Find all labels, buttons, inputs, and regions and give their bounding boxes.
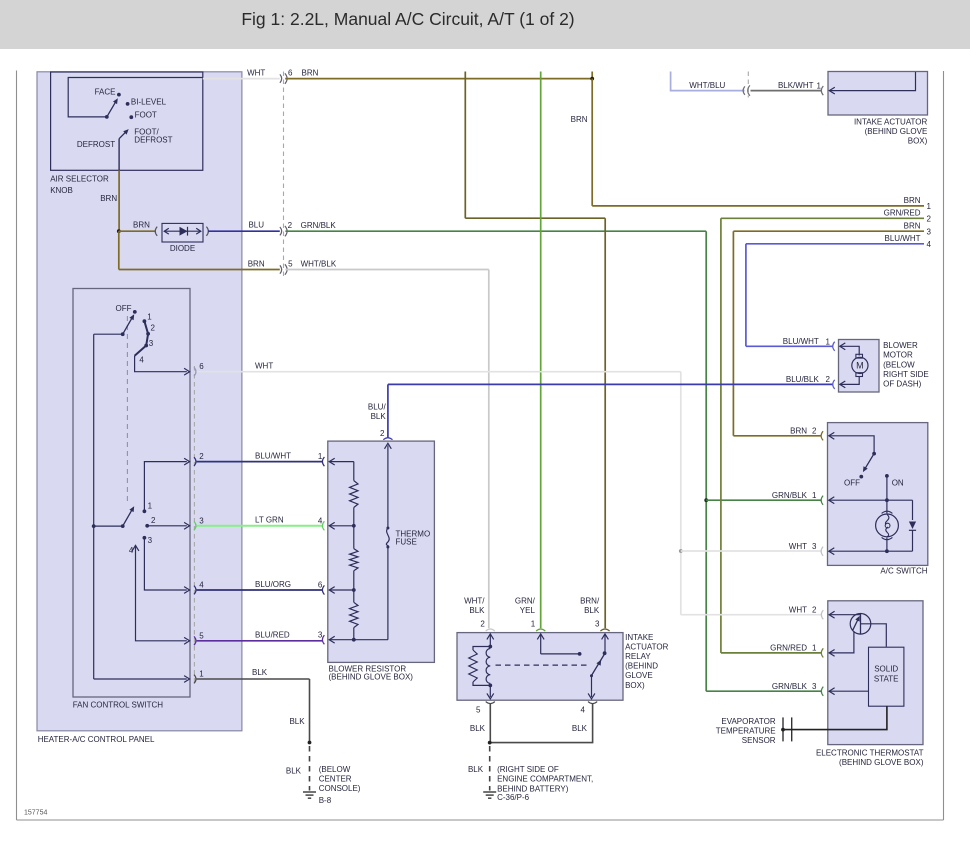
svg-text:3: 3: [812, 682, 817, 691]
svg-text:LT GRN: LT GRN: [255, 516, 284, 525]
svg-text:OF DASH): OF DASH): [883, 380, 922, 389]
svg-text:SOLID: SOLID: [874, 665, 898, 674]
svg-text:FACE: FACE: [95, 87, 116, 96]
svg-text:(BEHIND GLOVE BOX): (BEHIND GLOVE BOX): [839, 758, 924, 767]
svg-text:1: 1: [531, 619, 536, 628]
svg-text:A/C SWITCH: A/C SWITCH: [880, 566, 927, 575]
svg-text:3: 3: [927, 227, 932, 236]
svg-text:HEATER-A/C CONTROL PANEL: HEATER-A/C CONTROL PANEL: [38, 735, 155, 744]
svg-text:1: 1: [812, 644, 817, 653]
svg-text:1: 1: [927, 202, 932, 211]
svg-text:ACTUATOR: ACTUATOR: [625, 642, 668, 651]
svg-text:2: 2: [288, 221, 293, 230]
svg-text:BRN: BRN: [248, 259, 265, 268]
svg-text:(BELOW: (BELOW: [319, 765, 351, 774]
svg-text:4: 4: [199, 581, 204, 590]
svg-text:INTAKE: INTAKE: [625, 633, 653, 642]
svg-text:FOOT: FOOT: [135, 111, 157, 120]
svg-text:OFF: OFF: [116, 304, 132, 313]
svg-text:5: 5: [199, 631, 204, 640]
svg-text:BLK: BLK: [286, 767, 302, 776]
svg-text:BLU/ORG: BLU/ORG: [255, 580, 291, 589]
svg-text:157754: 157754: [24, 810, 47, 817]
svg-text:(BEHIND: (BEHIND: [625, 662, 658, 671]
svg-text:BLU: BLU: [248, 220, 264, 229]
svg-text:BRN: BRN: [133, 220, 150, 229]
svg-text:M: M: [856, 361, 864, 371]
svg-text:C-36/P-6: C-36/P-6: [497, 793, 530, 802]
svg-text:1: 1: [817, 82, 822, 91]
svg-text:CONSOLE): CONSOLE): [319, 784, 361, 793]
svg-text:FAN CONTROL SWITCH: FAN CONTROL SWITCH: [73, 701, 164, 710]
svg-text:4: 4: [927, 240, 932, 249]
svg-text:BRN: BRN: [302, 69, 319, 78]
svg-text:2: 2: [826, 375, 831, 384]
svg-text:BLK: BLK: [470, 724, 486, 733]
svg-text:4: 4: [139, 355, 144, 364]
svg-text:BRN: BRN: [790, 427, 807, 436]
svg-text:BLU/BLK: BLU/BLK: [786, 375, 820, 384]
svg-text:BRN/: BRN/: [580, 597, 600, 606]
svg-text:BLU/RED: BLU/RED: [255, 631, 290, 640]
svg-text:BLK: BLK: [289, 717, 305, 726]
svg-text:WHT: WHT: [789, 605, 807, 614]
svg-text:OFF: OFF: [844, 479, 860, 488]
svg-text:BRN: BRN: [571, 115, 588, 124]
svg-text:BLU/: BLU/: [368, 403, 387, 412]
svg-text:2: 2: [927, 215, 932, 224]
svg-text:BRN: BRN: [100, 194, 117, 203]
svg-text:GRN/BLK: GRN/BLK: [301, 221, 337, 230]
svg-text:ELECTRONIC THERMOSTAT: ELECTRONIC THERMOSTAT: [816, 749, 924, 758]
svg-text:GRN/RED: GRN/RED: [770, 644, 807, 653]
svg-text:CENTER: CENTER: [319, 775, 352, 784]
svg-text:SENSOR: SENSOR: [742, 736, 776, 745]
svg-text:1: 1: [199, 670, 204, 679]
svg-text:GLOVE: GLOVE: [625, 671, 653, 680]
svg-text:EVAPORATOR: EVAPORATOR: [721, 717, 775, 726]
svg-text:1: 1: [826, 337, 831, 346]
svg-text:BLK: BLK: [468, 765, 484, 774]
svg-text:BLK: BLK: [252, 668, 268, 677]
svg-text:BI-LEVEL: BI-LEVEL: [131, 98, 167, 107]
svg-text:YEL: YEL: [520, 606, 536, 615]
svg-text:BLK/WHT: BLK/WHT: [778, 81, 814, 90]
svg-text:TEMPERATURE: TEMPERATURE: [716, 727, 776, 736]
svg-text:3: 3: [812, 542, 817, 551]
svg-text:(BEHIND GLOVE: (BEHIND GLOVE: [865, 127, 928, 136]
svg-text:STATE: STATE: [874, 674, 899, 683]
svg-text:WHT/: WHT/: [464, 597, 485, 606]
svg-text:2: 2: [151, 323, 156, 332]
svg-text:2: 2: [380, 429, 385, 438]
svg-text:MOTOR: MOTOR: [883, 351, 913, 360]
svg-text:AIR SELECTOR: AIR SELECTOR: [50, 174, 109, 183]
svg-text:(RIGHT SIDE OF: (RIGHT SIDE OF: [497, 765, 559, 774]
svg-text:WHT/BLK: WHT/BLK: [301, 259, 337, 268]
svg-text:2: 2: [199, 452, 204, 461]
svg-text:RELAY: RELAY: [625, 652, 651, 661]
svg-text:3: 3: [199, 516, 204, 525]
svg-text:1: 1: [148, 501, 153, 510]
svg-text:4: 4: [129, 546, 134, 555]
svg-text:3: 3: [595, 619, 600, 628]
svg-text:6: 6: [199, 362, 204, 371]
svg-text:BLK: BLK: [371, 412, 387, 421]
svg-text:DEFROST: DEFROST: [77, 140, 115, 149]
svg-text:RIGHT SIDE: RIGHT SIDE: [883, 370, 929, 379]
svg-text:BLK: BLK: [584, 606, 600, 615]
svg-text:BEHIND BATTERY): BEHIND BATTERY): [497, 784, 569, 793]
svg-text:BLU/WHT: BLU/WHT: [255, 452, 291, 461]
svg-text:WHT/BLU: WHT/BLU: [689, 81, 725, 90]
svg-text:6: 6: [288, 69, 293, 78]
svg-text:3: 3: [149, 339, 154, 348]
svg-text:BLU/WHT: BLU/WHT: [783, 337, 819, 346]
svg-text:BLK: BLK: [572, 724, 588, 733]
svg-text:GRN/RED: GRN/RED: [884, 209, 921, 218]
svg-text:B-8: B-8: [319, 796, 332, 805]
svg-text:2: 2: [480, 619, 485, 628]
svg-text:WHT: WHT: [255, 362, 273, 371]
svg-text:FUSE: FUSE: [396, 538, 417, 547]
svg-text:GRN/: GRN/: [515, 597, 536, 606]
svg-text:GRN/BLK: GRN/BLK: [772, 682, 808, 691]
svg-text:BLOWER: BLOWER: [883, 341, 918, 350]
svg-text:4: 4: [581, 706, 586, 715]
svg-text:(BELOW: (BELOW: [883, 360, 915, 369]
svg-text:5: 5: [288, 259, 293, 268]
svg-text:1: 1: [812, 491, 817, 500]
svg-text:WHT: WHT: [247, 69, 265, 78]
svg-text:WHT: WHT: [789, 542, 807, 551]
svg-text:(BEHIND GLOVE BOX): (BEHIND GLOVE BOX): [329, 673, 414, 682]
svg-text:BOX): BOX): [625, 681, 645, 690]
svg-text:INTAKE ACTUATOR: INTAKE ACTUATOR: [854, 117, 928, 126]
svg-text:DEFROST: DEFROST: [134, 136, 172, 145]
svg-text:BRN: BRN: [904, 221, 921, 230]
svg-text:BRN: BRN: [904, 196, 921, 205]
svg-text:2: 2: [812, 427, 817, 436]
svg-text:BLK: BLK: [469, 606, 485, 615]
svg-text:DIODE: DIODE: [170, 244, 195, 253]
svg-text:KNOB: KNOB: [50, 186, 73, 195]
svg-text:2: 2: [812, 605, 817, 614]
svg-text:BOX): BOX): [908, 136, 928, 145]
svg-text:ENGINE COMPARTMENT,: ENGINE COMPARTMENT,: [497, 775, 593, 784]
svg-text:ON: ON: [892, 479, 904, 488]
svg-text:2: 2: [151, 516, 156, 525]
svg-text:3: 3: [148, 536, 153, 545]
svg-text:1: 1: [147, 312, 152, 321]
svg-text:GRN/BLK: GRN/BLK: [772, 491, 808, 500]
svg-text:5: 5: [476, 706, 481, 715]
svg-text:BLU/WHT: BLU/WHT: [885, 234, 921, 243]
svg-text:Fig 1: 2.2L, Manual A/C Circui: Fig 1: 2.2L, Manual A/C Circuit, A/T (1 …: [241, 9, 574, 29]
